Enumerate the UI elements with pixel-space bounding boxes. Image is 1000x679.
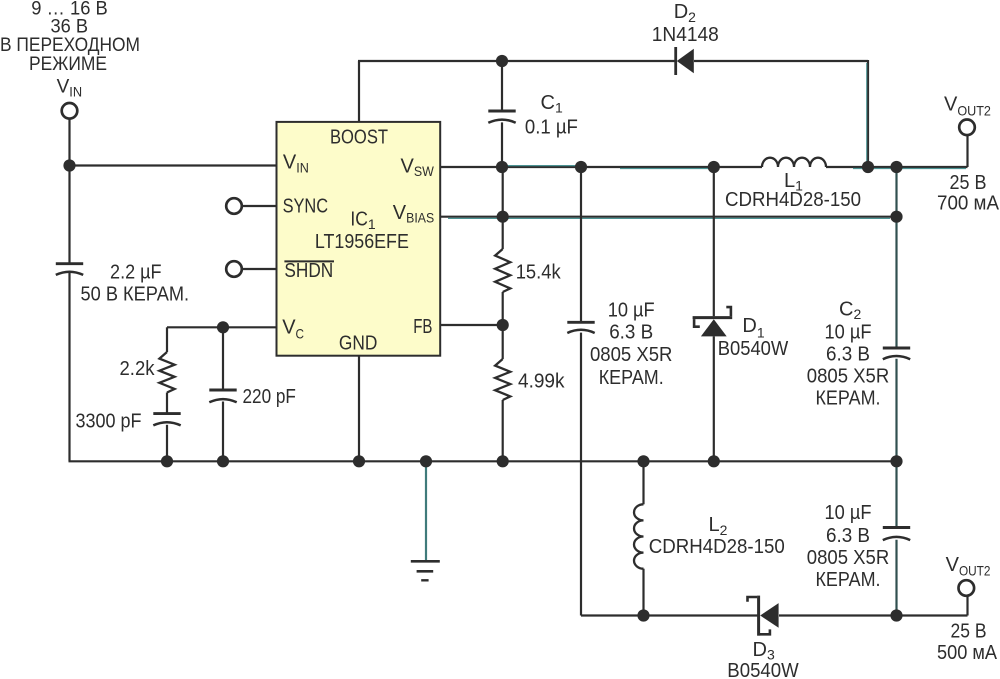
svg-text:CDRH4D28-150: CDRH4D28-150 <box>725 189 861 211</box>
svg-text:6.3 В: 6.3 В <box>609 322 653 344</box>
svg-text:FB: FB <box>413 316 432 338</box>
svg-text:SHDN: SHDN <box>284 260 333 282</box>
svg-text:25 В: 25 В <box>951 620 987 642</box>
svg-text:КЕРАМ.: КЕРАМ. <box>599 367 664 389</box>
svg-text:700 мА: 700 мА <box>937 193 1000 215</box>
svg-text:3300 pF: 3300 pF <box>76 411 142 433</box>
svg-text:РЕЖИМЕ: РЕЖИМЕ <box>29 54 107 75</box>
svg-text:0.1 µF: 0.1 µF <box>525 117 578 139</box>
svg-text:BOOST: BOOST <box>330 127 388 149</box>
svg-text:6.3 В: 6.3 В <box>826 525 870 547</box>
svg-text:0805 X5R: 0805 X5R <box>590 344 673 366</box>
svg-text:220 pF: 220 pF <box>243 386 296 408</box>
svg-text:50 В КЕРАМ.: 50 В КЕРАМ. <box>81 284 190 306</box>
svg-text:КЕРАМ.: КЕРАМ. <box>816 569 881 591</box>
svg-text:25 В: 25 В <box>950 172 987 194</box>
svg-text:КЕРАМ.: КЕРАМ. <box>816 387 881 409</box>
svg-text:1N4148: 1N4148 <box>652 24 719 46</box>
svg-text:15.4k: 15.4k <box>516 262 562 284</box>
svg-text:4.99k: 4.99k <box>518 371 565 393</box>
svg-text:2.2 µF: 2.2 µF <box>110 261 162 283</box>
svg-text:2.2k: 2.2k <box>120 358 156 380</box>
svg-text:B0540W: B0540W <box>718 338 789 360</box>
svg-text:GND: GND <box>339 332 378 354</box>
svg-text:500 мА: 500 мА <box>937 642 998 664</box>
svg-text:6.3 В: 6.3 В <box>826 343 870 365</box>
svg-text:10 µF: 10 µF <box>825 322 872 344</box>
svg-text:LT1956EFE: LT1956EFE <box>315 231 409 253</box>
svg-text:0805 X5R: 0805 X5R <box>807 365 890 387</box>
svg-text:0805 X5R: 0805 X5R <box>807 547 890 569</box>
svg-text:10 µF: 10 µF <box>825 502 872 524</box>
svg-text:B0540W: B0540W <box>727 660 799 679</box>
svg-text:10 µF: 10 µF <box>608 300 655 322</box>
svg-text:В ПЕРЕХОДНОМ: В ПЕРЕХОДНОМ <box>0 35 140 56</box>
svg-text:CDRH4D28-150: CDRH4D28-150 <box>649 536 785 558</box>
svg-text:SYNC: SYNC <box>283 195 329 217</box>
